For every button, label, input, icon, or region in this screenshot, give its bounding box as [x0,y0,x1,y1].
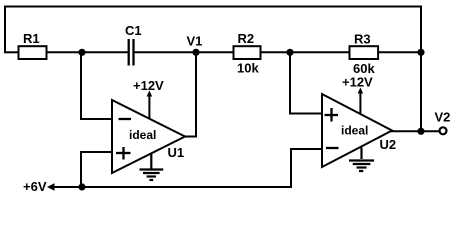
source +6V arrow [47,183,55,190]
node feedback tap [417,49,424,56]
wire top feedback rail [5,7,421,54]
op-amp U1 [112,100,185,173]
wire node A to U1 inverting input [81,53,112,119]
wire bottom rail to U2 inverting input [291,149,322,188]
node B junction [286,49,293,56]
wire R1 left lead [4,51,18,53]
wire U2 output [391,130,439,132]
svg-text:R2: R2 [238,31,255,46]
svg-text:V2: V2 [435,110,451,125]
power +12V U1 [148,95,150,119]
op-amp U2 [322,94,392,167]
pin plus U1 [116,147,131,160]
wire U1 plus input stub [81,152,112,187]
wire node B to U2 non-inverting input [290,53,322,114]
resistor R2 [234,46,261,59]
terminal V2 [440,127,447,134]
svg-text:+6V: +6V [23,179,47,194]
pin minus U1 [119,118,132,120]
capacitor C1 [129,39,134,66]
pin plus U2 [325,108,339,122]
svg-text:+12V: +12V [133,78,164,93]
wire R2 to R3 [261,51,350,53]
wire V1 to U1 output [184,53,196,137]
svg-text:R3: R3 [354,32,371,47]
wire right vertical rail [420,52,422,131]
svg-text:U1: U1 [168,145,185,160]
resistor R1 [19,46,47,59]
node A junction [78,49,85,56]
svg-text:ideal: ideal [129,128,156,142]
wire R1 to C1 [47,51,128,53]
wire R3 to right rail [378,51,422,53]
svg-text:R1: R1 [23,31,40,46]
node +6V junction [78,183,85,190]
node V2 junction [417,128,424,135]
wire C1 to R2 [135,51,234,53]
svg-text:+12V: +12V [342,75,373,90]
svg-text:U2: U2 [380,137,397,152]
node V1 [192,49,199,56]
pin minus U2 [326,147,339,149]
svg-text:V1: V1 [187,34,203,49]
wire bottom rail [53,186,291,188]
resistor R3 [350,46,379,59]
svg-text:10k: 10k [237,61,259,76]
svg-text:ideal: ideal [341,124,368,138]
power +12V U2 [359,92,361,114]
ground U1 [140,154,164,180]
ground U2 [349,148,374,172]
svg-text:C1: C1 [125,23,142,38]
